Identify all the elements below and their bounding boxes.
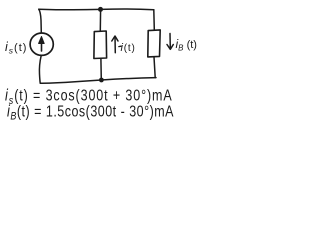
svg-text:is(t): is(t) — [5, 40, 27, 56]
wire left-top — [39, 9, 42, 33]
wire bottom — [40, 78, 156, 84]
wire mid-bottom — [100, 59, 102, 81]
arrow iB(t) down — [169, 34, 171, 49]
arrow i(t) up — [114, 37, 116, 53]
element box right — [148, 30, 160, 57]
wire right-bottom — [154, 57, 155, 78]
node bottom junction — [99, 78, 104, 83]
node top junction — [98, 7, 103, 12]
element box middle — [94, 31, 107, 59]
svg-text:i(t): i(t) — [121, 42, 136, 54]
lead-in dash of i(t) — [119, 45, 121, 47]
wire right-top — [153, 10, 156, 30]
current source IS — [30, 33, 53, 55]
wire mid-top — [99, 9, 101, 31]
wire top — [39, 8, 154, 11]
wire left-bottom — [39, 56, 41, 84]
svg-text:iB(t) = 1.5cos(300t - 30°)mA: iB(t) = 1.5cos(300t - 30°)mA — [7, 102, 174, 123]
svg-text:iB (t): iB (t) — [176, 37, 197, 53]
